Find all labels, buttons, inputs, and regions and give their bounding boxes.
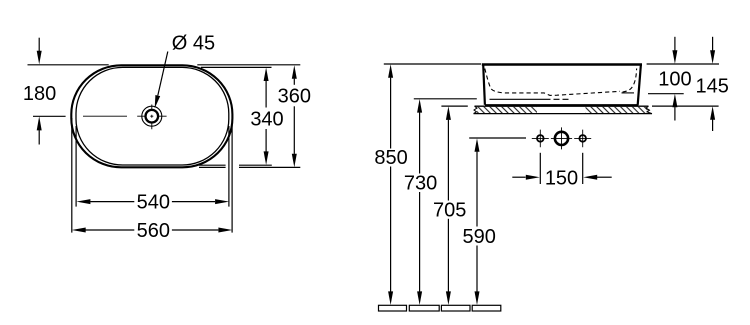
svg-text:590: 590	[463, 226, 496, 248]
svg-text:180: 180	[23, 83, 56, 105]
basin bottom	[485, 104, 639, 106]
countertop slab bottom	[474, 113, 653, 115]
ext line top (shared 180/360)	[28, 64, 301, 66]
ext line 590	[469, 137, 526, 139]
ext verticals right (560/540)	[231, 118, 233, 233]
floor bar 1	[379, 305, 407, 311]
ext verticals left (560/540)	[71, 118, 73, 233]
dim 145	[696, 37, 729, 131]
dim 340	[250, 68, 283, 166]
svg-text:340: 340	[250, 108, 283, 130]
svg-text:560: 560	[137, 220, 170, 242]
tap hole centerline ticks	[137, 105, 166, 130]
floor bar 4	[472, 305, 501, 311]
basin rim (side view)	[482, 63, 642, 65]
dim 150	[512, 168, 611, 190]
svg-text:360: 360	[278, 86, 311, 108]
basin right wall	[638, 65, 641, 105]
drain hole	[555, 132, 568, 145]
washbasin inner rim (top view)	[76, 67, 229, 165]
svg-text:730: 730	[404, 173, 437, 195]
basin horizontal centerline	[83, 115, 127, 117]
fixing hole left	[537, 135, 544, 142]
ext verticals from fixing holes	[539, 153, 541, 184]
svg-text:Ø 45: Ø 45	[172, 33, 215, 55]
basin hidden bowl contour (dashed)	[485, 69, 620, 96]
ext line rim left	[384, 63, 481, 65]
tap hole Ø45 circle	[146, 110, 159, 123]
dim 730	[404, 99, 437, 305]
ext line outer bottom right (360 lower ref)	[199, 166, 300, 168]
basin left wall	[483, 65, 485, 105]
dim 540	[76, 191, 229, 213]
washbasin outer rim (top view)	[71, 65, 232, 167]
svg-text:540: 540	[137, 191, 170, 213]
svg-text:850: 850	[374, 147, 407, 169]
ext line inner top right (340 upper ref)	[201, 66, 272, 68]
basin inner bottom line	[490, 98, 551, 100]
ext line 100	[648, 93, 684, 95]
floor bar 2	[409, 305, 439, 311]
dim 560	[72, 220, 233, 242]
basin inner bottom edge right (solid)	[622, 92, 635, 94]
dim 705	[433, 106, 466, 305]
countertop slab left break edge	[474, 106, 478, 113]
ext line 705	[441, 105, 467, 107]
leader line for Ø45	[158, 52, 168, 96]
slab hatching left	[477, 107, 537, 113]
countertop slab top	[475, 105, 649, 107]
dim 590	[463, 138, 496, 305]
dim 180	[23, 38, 56, 145]
countertop slab right break edge	[646, 106, 652, 113]
ext line rim right	[647, 63, 719, 65]
svg-text:145: 145	[696, 76, 729, 98]
svg-text:150: 150	[545, 168, 578, 190]
fixing hole right	[579, 135, 586, 142]
svg-text:705: 705	[433, 199, 466, 221]
dim 850	[374, 64, 407, 305]
tap hole outer circle	[142, 106, 162, 126]
ext line centerline left (180 lower ref)	[33, 115, 66, 117]
floor bar 3	[441, 305, 470, 311]
ext line 145	[652, 105, 719, 107]
svg-text:100: 100	[658, 69, 691, 91]
ext line inner bottom right (340 lower ref)	[199, 164, 272, 166]
ext line 730	[414, 98, 477, 100]
dim 360	[278, 65, 311, 167]
dim 100	[658, 37, 691, 121]
slab hatching right	[586, 107, 648, 113]
